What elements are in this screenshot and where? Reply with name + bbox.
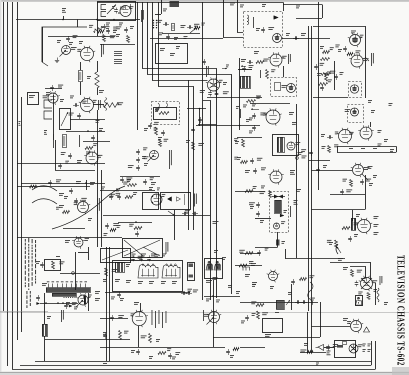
label value label f3 [77,49,81,52]
capacitor C109 [103,333,107,339]
wire [7,2,9,366]
label Rv1 [349,147,353,150]
transformer winding T1 winding [278,137,285,153]
label Rv2 [361,147,365,150]
label R44v [86,152,91,155]
label d4a [245,274,250,277]
label V37c [363,349,366,352]
wire [238,0,244,33]
capacitor C91 [135,231,139,237]
label lbl [239,109,242,118]
capacitor C87 [117,194,121,200]
label value label f44 [56,179,61,182]
resistor R41 [63,135,67,148]
resistor R23 [256,61,264,64]
label R28v [223,82,227,85]
resistor R44 [85,147,93,150]
label R97v [282,241,286,244]
resistor R47 [30,185,37,188]
capacitor C38 [334,74,338,80]
label D1 lbl [61,310,64,322]
label R62v [186,140,190,143]
wire [97,20,99,37]
capacitor C107 [110,315,114,321]
adjustment arrow bus arrow [251,108,259,110]
label value label f34 [327,72,331,75]
label C4 [69,42,73,45]
resistor R103 [335,240,338,248]
label conn label [163,9,167,12]
resistor R83 [52,261,55,269]
wire [365,26,367,98]
tube V17 [287,142,295,150]
dashed section box det box2 [348,105,364,123]
label pin col3 [158,310,161,324]
label c4x1 [356,214,360,217]
capacitor C86 [109,194,113,200]
label value label f53 [123,182,128,185]
node node [135,221,137,223]
capacitor C54 [136,149,140,155]
label tp lbl [302,156,307,159]
capacitor Cbus [198,117,202,123]
wire [80,62,82,70]
tube V20 [358,125,373,140]
capacitor C pd1 [182,212,188,216]
label hv lbl2 [260,220,264,223]
label IF3 [176,46,180,49]
diode marks [168,194,185,205]
resistor R69 [241,161,248,164]
wire [42,27,44,62]
label d4y1 [384,302,388,305]
label V23 lbl [65,240,70,243]
wire [66,131,105,133]
wire [199,109,201,127]
resistor R19 [194,27,200,30]
label R74v [322,146,326,149]
capacitor C36 [314,64,318,70]
wire [100,347,225,349]
capacitor C45 [68,153,72,159]
label value label f40 [93,143,97,146]
label HV right lbl [294,200,298,205]
wire [70,119,105,121]
node node [87,130,89,132]
capacitor C88 [105,223,109,229]
comp dark box [276,300,284,310]
label value label f66 [253,186,257,189]
coil L3a [101,5,106,10]
wire [370,122,372,127]
tube V36 [349,319,363,333]
flyback top coil [272,195,285,199]
label V8 note [226,65,229,68]
label V10 label [371,53,374,66]
fuse dark bar [337,345,343,348]
label row3 [162,254,166,257]
label b1x3 [96,120,100,123]
label value label f47 [154,122,159,125]
V35 pins [361,278,372,289]
label value label f98 [249,261,253,264]
label value label f32 [320,63,325,66]
svg-text:TELEVISION CHASSIS TS-602: TELEVISION CHASSIS TS-602 [395,255,407,366]
section box bracket [45,260,61,271]
wire [148,2,232,294]
page corner shade [392,367,409,375]
label value label f103 [88,295,92,298]
wire [213,280,215,347]
resistor R100 [239,264,247,267]
CRT sweep curve [52,186,125,229]
label R10 [106,23,110,26]
label CRT labels [97,198,100,214]
section box out socket box [356,296,363,306]
tube V18 [268,169,283,184]
label C60v [151,182,156,185]
label bl3 [138,281,143,284]
label value label f92 [188,289,193,292]
capacitor C51 [148,123,152,129]
label value label f75 [74,202,78,205]
label value label f30 [356,50,361,53]
wire [150,38,223,40]
label AUDIO label [288,54,291,64]
resistor R8 3W [95,72,99,88]
section box HV cage [205,259,223,279]
label HV label [289,206,292,217]
wire [17,237,122,239]
label l110 [213,277,218,280]
wire [161,0,163,14]
capacitor C v35 [355,281,359,287]
label caution2 line2 [30,291,31,306]
tube V31 rect [76,293,90,307]
label value label f18 [282,56,287,59]
label l3 [206,299,210,302]
label vol label [52,134,55,148]
section box test point box [28,93,39,105]
diode CR4 [69,305,72,307]
wire [224,0,244,38]
label value label f105 [118,315,124,318]
label value label f11 [110,35,116,38]
label value label f110 [175,352,180,355]
resistor R16 [127,36,130,43]
label lbl [343,267,348,270]
wire [296,104,298,258]
label R83v [36,261,40,264]
label b4t1 [368,100,372,103]
label value label f119 [309,275,314,278]
label value label f13 [194,24,199,27]
label value label f78 [85,238,89,241]
label value label f101 [327,240,332,243]
connector dots [153,20,157,29]
label V18 lbl [290,170,295,175]
wire [296,18,322,20]
tube V10 [349,53,364,68]
wire [48,36,115,38]
tube V9 [348,33,362,47]
label pin col1 [151,310,154,325]
label l6 [172,357,176,360]
label pin col5 [165,311,168,323]
label d3x2 [236,291,240,294]
coil L3b [101,12,106,17]
wire [235,191,265,193]
resistor R104 [351,270,354,277]
wire [97,2,283,4]
capacitor C68 [250,158,254,164]
label C13v [113,30,117,33]
wire [365,57,369,61]
label C80v [59,193,64,196]
label lbl2 [42,283,47,286]
transformer winding R105 wirewound [43,324,48,337]
wire [130,4,132,9]
label V37b [368,344,371,347]
label value label f84 [185,210,190,213]
coil L2 [114,60,122,64]
tube socket V27 socket [206,261,213,270]
label V30c [374,232,379,235]
wire [350,267,366,278]
label value label f27 [317,73,322,76]
label C1 value [62,8,66,13]
adjustment arrow tuning arrow [107,5,116,15]
label V30b [374,224,379,227]
capacitor C119 [326,345,330,351]
label IF2 [170,53,175,56]
label pin col2 [154,311,157,328]
resistor R108 [119,331,122,340]
capacitor C79 [340,189,344,195]
label C73v [321,134,325,137]
wire [78,252,88,254]
capacitor C28b [215,91,219,97]
label value label f81 [116,193,121,196]
label value label f58 [263,113,268,116]
wire [240,253,260,255]
node node [239,125,241,127]
label value label f106 [131,313,135,316]
label value label f35 [328,79,332,82]
resistor R115 [256,304,264,307]
label value label f46 [155,108,159,111]
label value label f94 [249,202,255,205]
section box output stage box [113,261,183,292]
wire [174,210,176,240]
label d2y1 [131,350,135,353]
wire [240,302,318,304]
label value label f85 [113,223,119,226]
tube V12 [351,108,359,116]
tube V5 [273,34,282,43]
wire [88,247,90,260]
label nums [44,130,47,135]
wire [307,312,309,352]
label intl lbl [327,351,331,356]
label R64v [243,105,247,108]
resistor R67 [242,139,245,147]
capacitor C80 [69,188,73,194]
tube socket V28 socket [214,261,221,270]
wire [44,336,46,361]
capacitor C60 [143,179,147,185]
label value label f5 [43,95,49,98]
transformer curves [158,103,168,109]
label value label f112 [311,298,315,301]
wire [17,163,105,165]
label value label f7 [120,7,125,10]
label yoke lbl [338,258,343,261]
label 110 lbl [213,221,219,224]
resistor R98 [245,252,253,255]
label value label f61 [296,142,301,145]
label bus lbl [236,106,239,109]
label V8a [206,66,209,77]
label value label f90 [154,254,159,257]
label osc label [166,242,169,254]
component [275,83,281,91]
capacitor C94 [181,291,187,295]
capacitor C78 [360,179,364,185]
wire [20,365,371,367]
wire [109,247,111,361]
wire [101,170,103,247]
label b1x2 [70,96,74,99]
label value label f1 [73,35,78,38]
label d3x5 [288,292,292,295]
label value label f108 [141,335,147,338]
label value label f37 [93,100,97,103]
tube V16 [264,108,281,125]
capacitor C75 [309,150,313,156]
T3 dots [63,297,75,298]
tube V30 [356,218,372,234]
capacitor C12 [102,24,106,30]
wire [140,303,142,312]
wire [396,146,398,152]
wire [312,209,366,211]
wire [313,26,365,28]
label R23v [241,59,246,62]
label value label f120 [347,321,351,324]
wire [40,303,78,305]
resistor R72 [245,190,253,193]
label value label f6 [129,6,133,9]
wire [100,318,128,320]
tube V11 [350,85,358,93]
dashed section box disc transformer box [152,102,180,125]
wire [105,292,190,294]
adjustment arrow arr [286,300,290,305]
label value label f123 [300,350,306,353]
resistor R50 [159,112,169,115]
V24 pin dots [152,196,161,203]
wire [77,20,79,28]
label V16b [292,122,297,125]
dashed section box sound det box [244,12,283,48]
capacitor C65 [252,113,256,119]
fuse holder [343,342,347,345]
wire [308,26,310,311]
tube V6 audio [268,52,283,67]
label value label f86 [117,225,121,228]
wire [204,296,240,298]
coil L8 [105,98,107,111]
label V37d [368,349,371,352]
label R103v [329,242,333,245]
coil L1 [114,52,122,56]
label C48v [90,182,95,185]
label value label f51 [128,165,134,168]
label det label [78,135,81,147]
capacitor C48 [48,180,52,186]
label C9 value [46,92,50,95]
label value label f19 [264,59,269,62]
capacitor Cd1 [226,349,230,355]
label R77v [369,183,373,186]
wire [235,265,262,267]
wire [53,95,55,140]
wire [83,141,110,143]
section box trap box [154,108,177,120]
tube V33 [207,310,222,325]
wire [375,283,377,305]
capacitor C105 [36,295,40,301]
label value label f95 [281,221,285,224]
capacitor C117 [245,315,249,321]
label value label f69 [334,144,338,147]
wire [320,302,322,337]
label value label f55 [150,177,154,180]
label R11 [119,23,123,26]
wire [370,262,372,280]
resistor R110 [149,334,152,343]
label d3x3 [252,284,256,287]
label bl6 [172,281,177,284]
label b3x1 [214,250,218,253]
label value label f14 [201,23,205,26]
transformer winding T3 secondary [52,294,77,297]
label value label f121 [358,344,363,347]
label lbl [261,186,265,189]
wire [12,369,376,371]
yoke S bracket [308,282,313,305]
label V16a [289,112,294,115]
label value label f64 [261,167,266,170]
diag2 [102,250,128,260]
label V33 lbl [202,310,205,321]
label R3 [57,40,61,43]
wire [337,146,396,148]
wire [198,124,217,126]
label V21b [373,175,377,178]
wire [45,88,62,90]
section box comp box [263,319,283,333]
label C56v [144,163,148,166]
capacitor C43 [91,135,95,141]
label value label f99 [354,222,359,225]
label V9 label [351,31,356,34]
wire [196,125,260,127]
wire [86,180,88,190]
label value label f62 [257,158,263,161]
label value label f39 [69,113,74,116]
